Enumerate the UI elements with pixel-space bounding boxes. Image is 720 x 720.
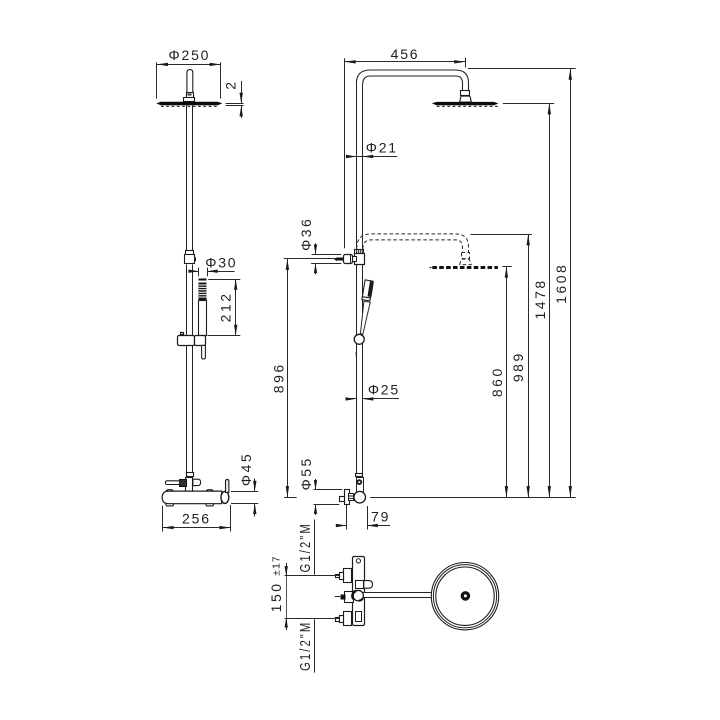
dimension phi36 lines [311,243,341,274]
dimension 79 lines [336,505,390,530]
dimension phi45 (valve body) [231,479,258,517]
valve handle stick (side view) [226,479,229,492]
svg-text:Φ25: Φ25 [368,382,400,398]
body screw (plan view) [356,559,360,563]
riser pipe upper (side view) [187,105,193,250]
slider bolt (front view) [334,257,337,261]
dimension 860 line [502,267,511,498]
svg-text:256: 256 [182,511,211,527]
svg-text:150: 150 [268,581,284,612]
dimension 456 line [345,58,466,249]
arm nut (front view) [460,91,472,103]
dimension phi30 (handset) [189,268,235,277]
flange stub (front view) [340,497,345,502]
dimension phi55 lines [314,479,343,515]
dimension 150 lines [285,563,340,630]
shower arm (front view) [356,70,468,91]
handset wand (front view, hanging) [362,280,374,301]
dimension phi21 line [346,156,398,158]
dimension phi25 line [346,398,399,400]
dimension 989 line [471,234,532,497]
flange thread (front view) [349,494,354,501]
head hub (plan view) [461,591,471,601]
shower head stem (side view) [184,70,195,102]
dimension 212 (wand length) [208,279,241,335]
wand holder slider (side view) [178,333,206,346]
svg-text:Φ21: Φ21 [366,139,398,155]
svg-text:±17: ±17 [270,555,282,575]
dimension phi250 line [157,62,221,98]
valve body (side view) [162,491,222,504]
head middle rim (plan view) [433,565,496,628]
baseline extension at valve centre [370,497,576,499]
baseline tick left of valve [284,497,297,499]
svg-text:Φ45: Φ45 [238,452,254,486]
hot inlet port (plan view) [336,569,352,583]
shower head disc (front view) [432,102,499,105]
handset handle (front view) [360,301,370,334]
diverter knob (plan view) [356,581,365,589]
arm ball joint (plan view) [353,590,363,600]
valve inlet fitting (side view) [186,473,194,492]
shower head nozzles (front view) [437,105,498,107]
riser pipe union (side view) [185,251,195,264]
hose stub tick [355,352,357,358]
shower head disc (side view) [156,102,222,105]
dimension 256 (valve width) [163,505,231,532]
hook ball (front view) [354,334,364,344]
svg-text:896: 896 [271,362,287,393]
svg-text:1478: 1478 [532,278,548,319]
head inner rim (plan view) [436,567,494,625]
dimension 1608 line [468,69,576,498]
valve diverter knob (side view) [193,479,201,485]
svg-text:79: 79 [371,508,390,524]
shower arm (plan view) [357,593,466,598]
diverter button (front view) [356,479,362,485]
shower head nozzles (side view) [161,105,217,107]
svg-text:860: 860 [489,366,505,397]
cold inlet port (plan view) [336,612,352,626]
dimension 896 line [284,259,337,498]
lowered head disc (dashed) [432,266,498,269]
riser pipe (front view) [357,84,363,474]
svg-text:456: 456 [391,46,420,62]
valve lever (side view) [180,480,187,487]
slider collar (front view) [355,250,364,255]
valve top band (front view) [356,474,363,477]
body label plate (plan view) [356,612,362,622]
svg-text:Φ55: Φ55 [298,456,314,490]
valve body (plan view) [353,557,365,626]
svg-text:989: 989 [510,351,526,382]
svg-text:Φ30: Φ30 [205,254,237,270]
valve body bosses [166,490,214,506]
svg-text:2: 2 [223,79,239,89]
wall flange (front view) [345,490,350,505]
handset hose stub (side view) [202,345,206,359]
svg-text:Φ250: Φ250 [169,47,211,63]
riser pipe lower (side view) [187,264,193,473]
valve neck (front view) [357,478,364,493]
dimension 1478 line [503,103,554,497]
handset wand (side view) [199,279,207,281]
valve ball (front view) [354,491,366,503]
slider lock knob (front view) [353,257,357,262]
head outer rim (plan view) [431,563,498,630]
svg-text:212: 212 [218,291,234,322]
dimension 2 (head thickness) [226,81,244,118]
lowered arm position (dashed) [357,234,472,265]
svg-text:G1/2"M: G1/2"M [296,522,313,572]
svg-text:1608: 1608 [553,263,569,304]
mixed outlet port (plan view) [345,592,354,603]
svg-text:Φ36: Φ36 [298,217,314,251]
valve end cap (side view) [221,491,229,503]
svg-text:G1/2"M: G1/2"M [296,621,313,671]
